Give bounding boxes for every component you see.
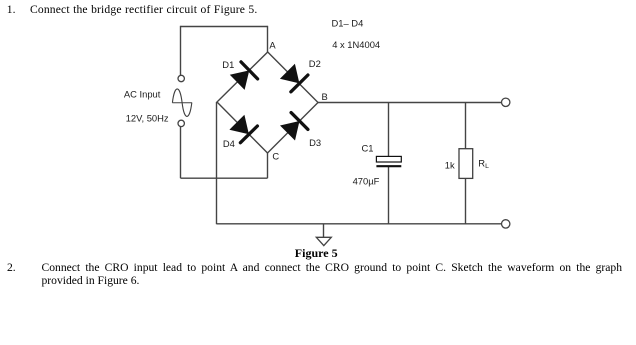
svg-text:B: B [322,91,328,102]
svg-text:D2: D2 [309,58,321,69]
svg-text:D4: D4 [223,138,235,149]
svg-text:RL: RL [478,158,489,171]
svg-text:4 x 1N4004: 4 x 1N4004 [332,39,380,50]
svg-text:D3: D3 [309,137,321,148]
svg-text:470µF: 470µF [353,176,380,187]
svg-text:D1: D1 [222,59,234,70]
svg-text:C1: C1 [362,143,374,154]
svg-text:AC Input: AC Input [124,88,161,99]
svg-text:1k: 1k [445,160,455,171]
svg-text:D1– D4: D1– D4 [332,17,364,28]
svg-text:A: A [269,40,276,51]
svg-text:C: C [272,150,279,161]
svg-text:12V, 50Hz: 12V, 50Hz [126,112,169,123]
